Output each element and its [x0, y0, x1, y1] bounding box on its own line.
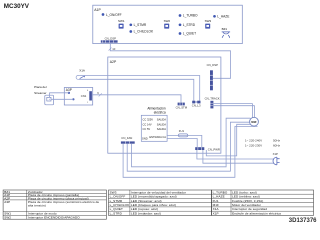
svg-text:10: 10: [112, 47, 116, 51]
connector CN_TRACK on A2P: [205, 97, 220, 109]
wire PSU AC line 2 to CN_PWR: [167, 139, 197, 148]
buzzer BZ1: [222, 27, 230, 37]
connector CN_STM on A2P: [176, 103, 188, 110]
svg-text:1~ 220-230V: 1~ 220-230V: [245, 143, 262, 147]
svg-text:L_HAZE: L_HAZE: [217, 15, 229, 19]
svg-text:L_CHILDLOK: L_CHILDLOK: [134, 30, 154, 34]
switch SW1: [118, 19, 125, 28]
svg-text:SW2: SW2: [4, 215, 11, 219]
wire CN_TRACK to motor top 1: [213, 104, 252, 118]
wire CN_PWR to plug X1P line 2: [203, 150, 274, 163]
power supply block Alimentacion electrica: [141, 107, 167, 142]
power plug X1P: [273, 152, 280, 165]
svg-text:CC 14V: CC 14V: [143, 122, 152, 126]
svg-text:CC 325V: CC 325V: [143, 117, 154, 121]
streamer unit plate: [34, 85, 53, 105]
fan motor M1F: [250, 117, 259, 126]
LED L_TURBO: [179, 14, 198, 18]
connector CN_DSP on A2P: [207, 63, 218, 90]
svg-text:SW3: SW3: [205, 19, 212, 23]
connector CN_PWR on A2P: [195, 147, 220, 151]
LED L_QUIET: [179, 32, 196, 36]
svg-text:CN1: CN1: [81, 94, 87, 98]
drawing number 3D137376: [289, 218, 317, 224]
svg-text:A1P: A1P: [94, 8, 101, 12]
svg-text:CN_DSP: CN_DSP: [105, 36, 116, 40]
svg-text:X1P: X1P: [213, 212, 219, 216]
svg-text:FU1: FU1: [179, 129, 185, 133]
svg-text:A2P: A2P: [110, 60, 117, 64]
node A3P terminal 1: [68, 92, 70, 94]
PCB A1P display board: [93, 5, 243, 43]
svg-text:A3P: A3P: [66, 88, 72, 92]
svg-text:eléctrica: eléctrica: [154, 110, 166, 114]
PCB A3P high voltage board: [64, 88, 92, 106]
switch SW3: [205, 19, 212, 28]
svg-text:3D137376: 3D137376: [289, 218, 317, 224]
svg-text:Enchufe de alimentación eléctr: Enchufe de alimentación eléctrica: [232, 212, 281, 216]
LED L_STMR: [129, 23, 146, 27]
wire streamer to A3P terminal 2: [51, 98, 73, 100]
svg-text:50Hz: 50Hz: [273, 138, 281, 142]
svg-text:CN_FAN: CN_FAN: [121, 136, 132, 140]
legend table right: [212, 190, 314, 216]
LED L_HAZE: [213, 15, 229, 19]
wire streamer to A3P terminal 1: [50, 93, 69, 98]
connector CN_L3 on A2P: [192, 101, 201, 108]
svg-text:CN_STM: CN_STM: [176, 106, 188, 110]
connector CN_DSP on A1P: [101, 36, 118, 42]
svg-text:LED (estándar: azul): LED (estándar: azul): [131, 212, 161, 216]
svg-text:L_STRD: L_STRD: [110, 212, 123, 216]
power rating note: [245, 138, 281, 147]
wire 10-way bus A1P CN_DSP to A2P CN_DSP: [109, 43, 231, 79]
svg-text:L_TURBO: L_TURBO: [183, 14, 198, 18]
svg-text:BZ1: BZ1: [222, 27, 228, 31]
svg-text:1~ 220-240V: 1~ 220-240V: [245, 138, 262, 142]
svg-text:SALIDA: SALIDA: [157, 117, 166, 121]
switch SW2: [164, 19, 171, 28]
svg-text:CN_TRACK: CN_TRACK: [205, 97, 220, 101]
svg-text:L_ON/OFF: L_ON/OFF: [106, 13, 122, 17]
svg-text:SW2: SW2: [164, 19, 171, 23]
svg-text:X1A: X1A: [79, 69, 85, 73]
LED L_CHILDLOK: [129, 30, 154, 34]
svg-text:SALIDA: SALIDA: [157, 127, 166, 131]
wire 6-way bus A3P CN1 to CN_STM: [92, 91, 181, 102]
svg-text:Interruptor ENCENDIDO/APAGADO: Interruptor ENCENDIDO/APAGADO: [28, 215, 80, 219]
wire CN_FAN tap 2 to fan motor: [127, 122, 250, 171]
LED L_ON/OFF: [102, 13, 122, 17]
svg-text:CN_L3: CN_L3: [192, 104, 201, 108]
svg-text:GND: GND: [142, 137, 148, 141]
wire X1A top to CN_L3: [79, 76, 199, 101]
svg-text:60Hz: 60Hz: [273, 143, 281, 147]
PCB A2P main board: [108, 57, 221, 153]
wire X1A bottom to CN_L3: [79, 79, 194, 100]
svg-text:L_STRD: L_STRD: [183, 23, 196, 27]
svg-text:M1F: M1F: [251, 120, 257, 124]
connector CN_FAN on A2P: [121, 136, 135, 144]
svg-text:Streamer: Streamer: [34, 91, 46, 95]
svg-text:CN_DSP: CN_DSP: [207, 63, 218, 67]
svg-text:X1P: X1P: [273, 152, 278, 156]
wire CN_FAN tap 3 to fan motor: [132, 118, 251, 167]
wire CN_PWR AC common to fan motor: [206, 124, 251, 156]
svg-text:L_QUIET: L_QUIET: [183, 32, 196, 36]
svg-text:ENTRADA CA: ENTRADA CA: [149, 135, 166, 139]
title MC30YV: [4, 3, 30, 10]
svg-text:A3P: A3P: [4, 200, 10, 204]
connector CN1 on A3P: [81, 90, 92, 104]
legend table middle: [109, 190, 212, 216]
LED L_STRD: [179, 23, 196, 27]
svg-text:SALIDA: SALIDA: [157, 122, 166, 126]
wire CN_FAN tap 1 to fan motor: [123, 127, 257, 178]
svg-text:SW1: SW1: [118, 19, 125, 23]
fuse FU1: [178, 129, 187, 137]
legend table left: [3, 190, 106, 220]
svg-text:CN_PWR: CN_PWR: [208, 147, 220, 151]
wire CN_TRACK to motor top 2: [213, 106, 254, 118]
svg-text:Placa del: Placa del: [34, 85, 47, 89]
svg-text:MC30YV: MC30YV: [4, 3, 30, 10]
svg-text:alta tensión): alta tensión): [28, 203, 46, 207]
svg-text:L_STMR: L_STMR: [134, 23, 147, 27]
node A3P terminal 2: [72, 98, 74, 100]
safety switch X1A: [76, 69, 85, 80]
svg-text:CC 5V: CC 5V: [143, 127, 151, 131]
wire CN_PWR to plug X1P line 1: [197, 150, 274, 159]
wire PSU AC line 1 through fuse to CN_PWR: [167, 135, 202, 147]
